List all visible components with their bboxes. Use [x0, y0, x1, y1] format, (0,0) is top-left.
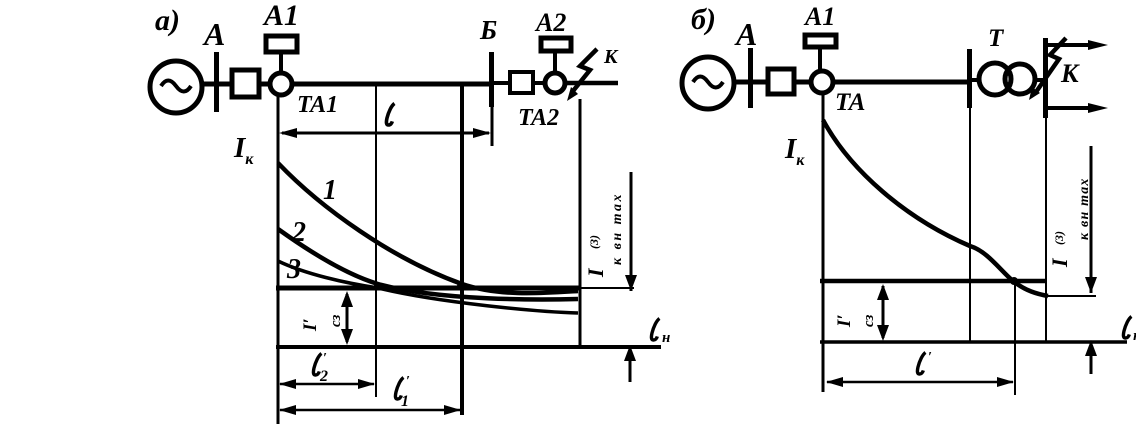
I_sz level line (fig b) — [820, 279, 1046, 284]
bus B — [489, 52, 494, 107]
I_sz extension right — [580, 287, 634, 289]
curve 1 — [278, 163, 578, 293]
junction dot curve/I_sz (fig b) — [1010, 277, 1018, 285]
svg-text:I′: I′ — [834, 314, 855, 328]
svg-text:I: I — [583, 267, 608, 278]
svg-text:ТА1: ТА1 — [297, 92, 338, 118]
svg-text:А2: А2 — [534, 8, 566, 37]
generator G2 — [682, 57, 734, 109]
wire relay A2 to TA2 — [553, 51, 557, 73]
chart b: left axis — [822, 93, 825, 392]
bus A (fig b) — [748, 48, 753, 108]
svg-text:I′: I′ — [300, 318, 321, 332]
relay A2 — [541, 38, 571, 51]
svg-text:А: А — [734, 16, 757, 52]
svg-text:(3): (3) — [1052, 231, 1066, 245]
right dimension upper segment (fig b) — [1090, 146, 1093, 293]
curve 2 — [278, 229, 578, 299]
wire gen to bus A — [734, 80, 768, 85]
svg-text:3: 3 — [286, 254, 301, 285]
current transformer TA1 — [270, 73, 292, 95]
svg-text:к вн max: к вн max — [1077, 177, 1092, 240]
svg-text:н: н — [662, 330, 670, 346]
label l on axis b — [1123, 317, 1131, 339]
x axis of chart b — [820, 340, 1127, 344]
svg-text:1: 1 — [401, 393, 409, 410]
wire relay A1 to TA1 — [279, 52, 283, 74]
svg-text:К: К — [1060, 59, 1080, 88]
l' right boundary vertical — [1014, 281, 1016, 395]
wire TA1 to bus B — [292, 82, 490, 87]
svg-text:ТА: ТА — [835, 89, 865, 116]
l' dimension (fig b) — [827, 381, 1013, 384]
breaker Q1 — [232, 70, 259, 97]
svg-text:(3): (3) — [587, 235, 601, 249]
svg-text:′: ′ — [928, 350, 932, 365]
wire bus T to transformer — [972, 78, 980, 82]
curve 3 — [278, 261, 578, 313]
transformer T winding 2 — [1005, 64, 1035, 94]
right dimension lower segment (fig b) — [1090, 342, 1093, 374]
I_sz pickup level line — [276, 286, 580, 291]
svg-text:′: ′ — [406, 374, 410, 389]
bus A — [214, 52, 219, 112]
junction dot curve1/I_sz — [457, 282, 465, 290]
junction dot curves2,3/I_sz — [374, 284, 381, 291]
svg-text:1: 1 — [323, 175, 337, 206]
l1 dimension — [280, 409, 460, 412]
bus B extension down — [491, 107, 494, 146]
svg-text:сз: сз — [861, 315, 877, 327]
generator sine symbol — [161, 81, 191, 92]
svg-text:Т: Т — [988, 25, 1005, 52]
feeder arrow top — [1048, 43, 1094, 47]
I_sz dimension arrows (fig b) — [882, 286, 885, 338]
fault K lightning bolt — [573, 49, 597, 91]
current transformer TA2 — [545, 73, 565, 93]
bus K (fig b) — [1043, 38, 1048, 118]
vertical below bus T — [969, 108, 971, 342]
svg-text:I: I — [1047, 257, 1072, 268]
wire breaker Q2 to TA2 — [533, 81, 545, 85]
bus before transformer — [967, 49, 972, 108]
right chart boundary under fault K — [579, 99, 582, 348]
wire gen to bus A — [202, 82, 232, 87]
label l'1 — [395, 378, 403, 400]
chart a: left axis — [277, 95, 280, 424]
thick vertical at l1 end — [460, 84, 464, 415]
wire relay to TA — [818, 47, 822, 71]
dimension l line — [282, 132, 489, 135]
wire breaker to TA — [794, 80, 812, 85]
fault current curve (fig b) — [823, 120, 1048, 296]
svg-text:′: ′ — [323, 351, 327, 366]
transformer T winding 1 — [979, 63, 1011, 95]
I_sz dimension arrows — [346, 294, 349, 342]
svg-text:б): б) — [691, 3, 716, 36]
svg-text:к вн max: к вн max — [610, 192, 625, 265]
svg-text:2: 2 — [319, 368, 328, 385]
current transformer TA — [811, 71, 833, 93]
wire TA to bus T — [833, 80, 967, 85]
right dimension I(3)k vn max upper segment — [630, 172, 633, 291]
label l'2 — [313, 354, 321, 376]
breaker (fig b) — [768, 69, 794, 94]
svg-text:К: К — [603, 46, 619, 68]
wire transformer to bus K — [1035, 78, 1045, 82]
x axis of chart a — [276, 345, 661, 349]
relay A1 — [266, 36, 297, 52]
right dimension lower segment — [629, 347, 632, 382]
vertical below bus K — [1045, 118, 1047, 342]
feeder arrow bottom — [1048, 106, 1094, 110]
curve end level extension — [1046, 295, 1096, 297]
label l' — [917, 353, 925, 375]
svg-text:Б: Б — [479, 15, 497, 45]
svg-text:2: 2 — [291, 217, 306, 248]
svg-text:ТА2: ТА2 — [518, 105, 559, 131]
svg-text:А: А — [202, 16, 225, 52]
svg-text:сз: сз — [328, 315, 344, 327]
relay A1 (fig b) — [805, 35, 836, 47]
breaker Q2 — [510, 72, 533, 93]
wire TA2 to line end — [565, 81, 618, 86]
l2 dimension — [280, 383, 374, 386]
svg-text:а): а) — [155, 4, 180, 37]
fault K lightning bolt (fig b) — [1036, 38, 1066, 92]
label l — [386, 104, 394, 126]
svg-text:А1: А1 — [262, 0, 299, 32]
svg-text:А1: А1 — [803, 2, 835, 31]
label l_n on axis a — [651, 319, 659, 341]
thin vertical at l2 end — [375, 84, 377, 397]
wire breaker to TA1 — [259, 82, 271, 87]
generator G1 — [150, 61, 202, 113]
wire bus B to breaker Q2 — [494, 81, 510, 85]
generator sine symbol — [693, 77, 723, 88]
